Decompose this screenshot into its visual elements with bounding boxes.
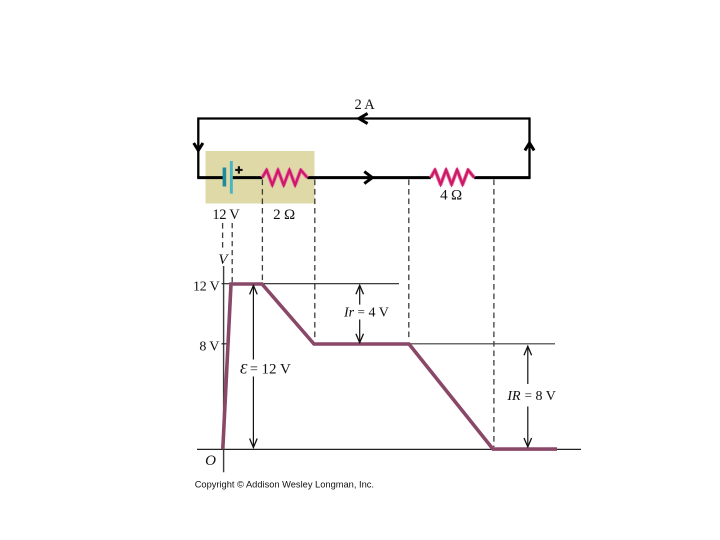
svg-text:4 V: 4 V: [369, 306, 389, 321]
svg-text:8 V: 8 V: [536, 389, 556, 404]
svg-text:V: V: [218, 252, 229, 268]
svg-text:12 V: 12 V: [193, 280, 220, 295]
svg-text:IR: IR: [506, 389, 521, 404]
svg-text:Ɛ: Ɛ: [240, 361, 248, 377]
svg-text:8 V: 8 V: [199, 340, 219, 355]
svg-text:2 Ω: 2 Ω: [273, 207, 295, 223]
svg-text:Copyright © Addison Wesley Lon: Copyright © Addison Wesley Longman, Inc.: [195, 479, 374, 489]
svg-text:4 Ω: 4 Ω: [440, 188, 462, 204]
svg-text:=: =: [525, 387, 532, 402]
svg-text:12 V: 12 V: [262, 361, 291, 377]
svg-text:2 A: 2 A: [355, 97, 376, 113]
svg-text:Ir: Ir: [343, 306, 355, 321]
svg-text:=: =: [358, 304, 365, 319]
svg-text:=: =: [250, 362, 258, 377]
svg-text:O: O: [205, 453, 216, 469]
svg-text:12 V: 12 V: [212, 207, 240, 223]
